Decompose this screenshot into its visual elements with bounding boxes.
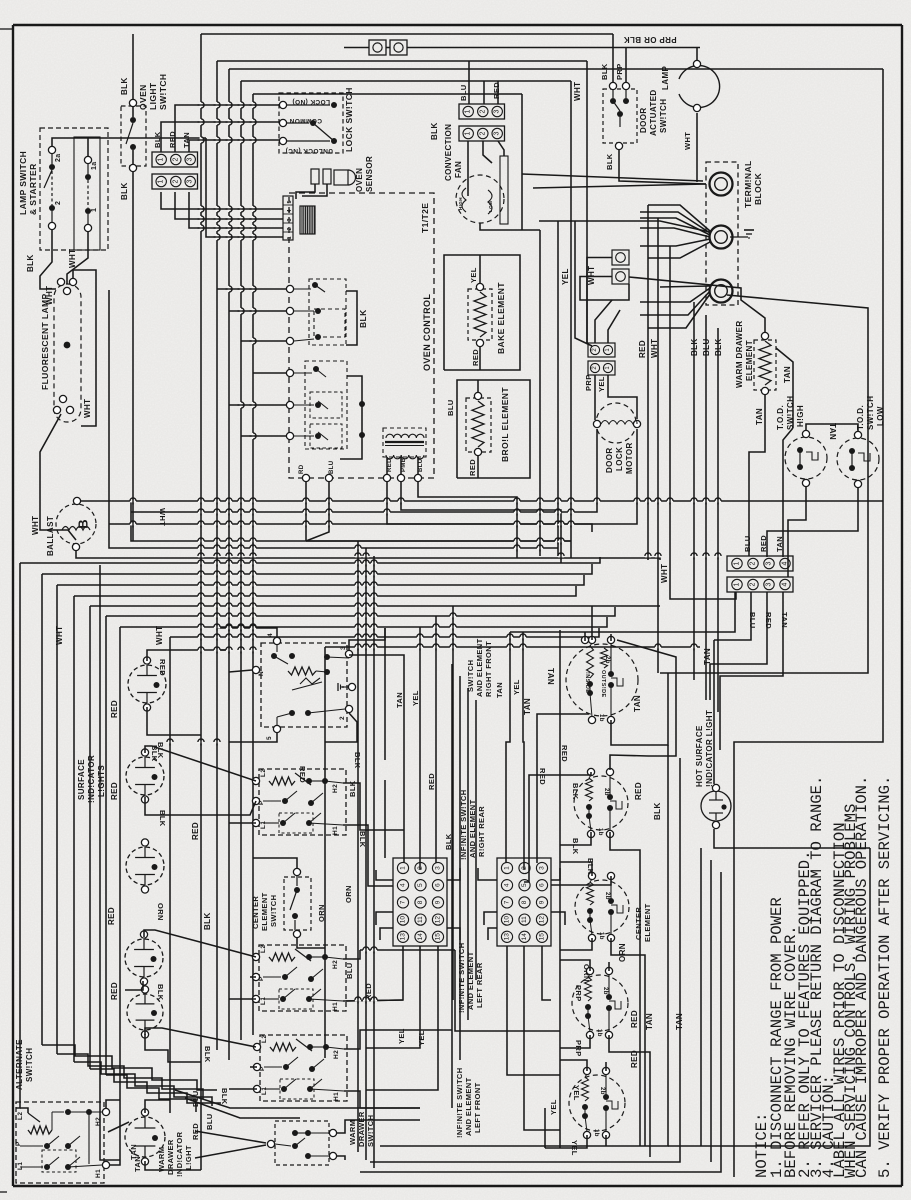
- svg-text:L1: L1: [260, 997, 267, 1005]
- svg-text:L!GHTS: L!GHTS: [97, 765, 106, 797]
- svg-text:BLK: BLK: [714, 338, 723, 356]
- svg-text:FLUORESCENT LAMP: FLUORESCENT LAMP: [40, 293, 50, 390]
- surface unit switch right front box: [261, 643, 347, 727]
- connector strip Q top: [727, 556, 793, 571]
- ground symbol: [730, 236, 748, 238]
- wire vertical 587: [586, 61, 588, 343]
- fluorescent lamp bottom pins: [59, 395, 66, 402]
- svg-text:RED: RED: [107, 907, 116, 925]
- svg-text:1: 1: [504, 866, 511, 870]
- hot surface indicator light: [701, 791, 731, 821]
- svg-text:3: 3: [340, 646, 347, 650]
- svg-text:BLK: BLK: [571, 838, 580, 855]
- wires BLK BLU BLK verticals: [693, 302, 695, 680]
- wires into left grid: [376, 870, 393, 880]
- svg-text:RED: RED: [560, 745, 569, 762]
- svg-text:WHT: WHT: [68, 249, 77, 268]
- svg-text:BLK: BLK: [120, 77, 129, 95]
- svg-text:RED: RED: [191, 822, 200, 840]
- bake element: [468, 289, 492, 340]
- warm drawer indicator light: [125, 1117, 165, 1157]
- svg-text:T1/T2E: T1/T2E: [420, 203, 430, 233]
- svg-text:WHT: WHT: [55, 626, 64, 645]
- svg-text:ELEMENT: ELEMENT: [260, 892, 269, 931]
- svg-text:5: 5: [417, 883, 424, 887]
- svg-text:1: 1: [734, 582, 741, 586]
- svg-text:YEL: YEL: [512, 679, 521, 695]
- wire long vertical 545: [544, 1108, 546, 1148]
- svg-text:BLU: BLU: [205, 1113, 214, 1130]
- oven light switch: [121, 106, 146, 166]
- svg-text:BLOCK: BLOCK: [753, 172, 763, 205]
- wires into terminal block mid: [648, 205, 710, 231]
- wire mid band 4: [56, 585, 58, 1054]
- svg-text:H1: H1: [95, 1169, 102, 1178]
- svg-text:!NF!N!TE SW!TCH: !NF!N!TE SW!TCH: [459, 789, 468, 860]
- svg-text:L2: L2: [260, 769, 267, 777]
- wire vertical 670: [670, 246, 736, 599]
- svg-text:DRAWER: DRAWER: [357, 1111, 366, 1147]
- connector square D: [612, 269, 629, 284]
- wire relay A right: [346, 291, 357, 345]
- svg-text:SURFACE: SURFACE: [77, 759, 86, 800]
- svg-text:LEFT REAR: LEFT REAR: [475, 962, 484, 1008]
- center element switch: [284, 877, 311, 930]
- wires door lock motor: [594, 375, 596, 420]
- wires oven control relay feeds: [217, 288, 286, 290]
- svg-text:12: 12: [539, 916, 546, 924]
- svg-text:1a: 1a: [91, 161, 98, 170]
- wire ballast to WHT bus: [81, 500, 883, 502]
- svg-text:RED: RED: [298, 766, 307, 783]
- svg-text:2: 2: [750, 582, 757, 586]
- svg-text:RED: RED: [634, 782, 643, 800]
- wires into right grid: [478, 868, 497, 880]
- wire mid band 3: [41, 574, 43, 1045]
- svg-text:TAN: TAN: [828, 423, 837, 440]
- svg-text:7: 7: [400, 900, 407, 904]
- relay A contacts: [286, 285, 293, 292]
- svg-text:LIGHT: LIGHT: [148, 82, 158, 110]
- switch RF internals: [271, 653, 277, 659]
- svg-text:AND ELEMENT: AND ELEMENT: [466, 951, 475, 1010]
- svg-text:OVEN CONTROL: OVEN CONTROL: [422, 294, 432, 371]
- wire field diagonals: [217, 649, 229, 651]
- svg-text:4: 4: [782, 582, 789, 586]
- wires switch LR: [144, 930, 256, 957]
- svg-text:4: 4: [267, 633, 274, 637]
- svg-text:PRP OR BLK: PRP OR BLK: [623, 35, 676, 44]
- lamp switch contacts: [48, 146, 55, 153]
- svg-text:R!GHT REAR: R!GHT REAR: [477, 806, 486, 857]
- surface indicator light 5: [127, 994, 163, 1030]
- svg-text:LOCK (NO): LOCK (NO): [292, 98, 330, 105]
- wire top bus 3: [229, 68, 883, 70]
- infinite switch left front: [569, 1075, 625, 1131]
- svg-text:L1: L1: [260, 821, 267, 829]
- svg-text:!NF!N!TE SW!TCH: !NF!N!TE SW!TCH: [455, 1067, 464, 1138]
- wire YEL to grid B c2: [523, 632, 524, 870]
- svg-text:AND ELEMENT: AND ELEMENT: [468, 799, 477, 858]
- svg-text:WHT: WHT: [683, 132, 692, 150]
- svg-text:L1: L1: [261, 1087, 268, 1095]
- oven sensor: [311, 169, 319, 184]
- svg-text:CENTER: CENTER: [634, 907, 643, 940]
- svg-text:WARM: WARM: [348, 1120, 357, 1145]
- svg-text:N: N: [258, 671, 265, 676]
- staircase wires: [42, 1045, 217, 1090]
- wires broil element: [477, 380, 479, 392]
- surface indicator light 4: [125, 939, 163, 977]
- svg-text:BLK: BLK: [600, 63, 609, 80]
- svg-text:RED: RED: [538, 768, 547, 785]
- svg-text:3: 3: [494, 109, 501, 113]
- wire field left of grids: [357, 541, 359, 1152]
- svg-text:2: 2: [750, 561, 757, 565]
- svg-text:5: 5: [521, 883, 528, 887]
- wires right rear switch: [524, 772, 591, 882]
- broil element: [466, 398, 491, 452]
- svg-text:TAN: TAN: [703, 648, 712, 665]
- svg-text:1: 1: [465, 109, 472, 113]
- svg-text:ELEMENT: ELEMENT: [745, 340, 754, 381]
- warm drawer switch contacts: [267, 1140, 274, 1147]
- wire lamp switch tops: [52, 138, 88, 156]
- svg-text:SENSOR: SENSOR: [365, 156, 374, 192]
- wire mid band 9: [169, 637, 171, 1113]
- wires oven lamp: [696, 48, 698, 61]
- wire top bus corner left: [200, 34, 202, 1063]
- svg-text:TAN: TAN: [129, 1144, 138, 1160]
- wires connector squares: [587, 258, 612, 344]
- svg-text:TAN: TAN: [395, 692, 404, 708]
- wire mid band 11: [100, 565, 120, 1160]
- wire WHT vertical 2: [657, 218, 659, 673]
- svg-text:BALLAST: BALLAST: [46, 516, 55, 556]
- svg-text:BLK: BLK: [653, 802, 662, 820]
- wires warm drawer light: [145, 1100, 170, 1113]
- svg-text:2: 2: [479, 131, 486, 135]
- wire RED to grid B c3: [537, 714, 589, 863]
- svg-text:L2: L2: [261, 1035, 268, 1043]
- svg-text:RED: RED: [158, 659, 167, 676]
- svg-text:RED: RED: [759, 535, 768, 552]
- border frame outer: [13, 24, 902, 26]
- svg-text:YEL: YEL: [572, 1085, 581, 1101]
- svg-text:WHT: WHT: [587, 266, 596, 285]
- svg-text:AND ELEMENT: AND ELEMENT: [464, 1077, 473, 1136]
- svg-text:!NS!DE: !NS!DE: [584, 672, 590, 693]
- svg-text:2: 2: [479, 109, 486, 113]
- surface unit switch right rear box: [259, 769, 346, 835]
- svg-text:RED: RED: [638, 340, 647, 358]
- wires connector pairs up: [595, 300, 612, 343]
- svg-text:H2: H2: [333, 1050, 340, 1059]
- svg-text:BLK: BLK: [571, 783, 580, 800]
- relay group A box: [309, 279, 346, 345]
- svg-text:13: 13: [504, 933, 511, 941]
- fluorescent lamp top pins: [57, 278, 64, 285]
- wires strip Q down: [510, 592, 735, 632]
- svg-text:P: P: [15, 1141, 22, 1146]
- wire oven light switch top: [132, 34, 134, 99]
- svg-text:BLK: BLK: [26, 254, 35, 272]
- wires oven sensor: [296, 184, 315, 199]
- lamp switch and starter box: [40, 128, 108, 250]
- surface indicator light 1: [128, 665, 166, 703]
- svg-text:1: 1: [158, 157, 165, 161]
- terminal grid right (1-15): [497, 858, 551, 946]
- broil element enclosure: [457, 380, 530, 478]
- wire TAN to grid B c1: [506, 632, 510, 863]
- svg-text:2a: 2a: [55, 153, 62, 162]
- svg-text:YEL: YEL: [597, 376, 606, 392]
- wire WHT vertical: [570, 81, 572, 558]
- wire oven light switch down: [132, 172, 134, 541]
- svg-text:AND ELEMENT: AND ELEMENT: [475, 638, 484, 697]
- svg-text:9: 9: [435, 900, 442, 904]
- svg-text:YEL: YEL: [417, 1030, 426, 1046]
- wire mid band 6: [89, 606, 91, 1069]
- svg-text:!ND!CATOR: !ND!CATOR: [87, 755, 96, 803]
- svg-text:5. VERIFY PROPER OPERATION AF: 5. VERIFY PROPER OPERATION AFTER SERVICI…: [876, 776, 894, 1178]
- surface indicator light 3: [126, 847, 164, 885]
- svg-text:3: 3: [766, 561, 773, 565]
- wire top bus 1: [201, 33, 613, 35]
- svg-text:YEL: YEL: [397, 1028, 406, 1044]
- svg-text:10: 10: [400, 916, 407, 924]
- terminal block lug 1: [710, 173, 733, 196]
- svg-text:3: 3: [435, 866, 442, 870]
- svg-text:RED: RED: [427, 773, 436, 790]
- wire mid band upper a: [131, 501, 571, 541]
- svg-text:2: 2: [417, 866, 424, 870]
- svg-text:WHT: WHT: [83, 399, 92, 418]
- wire top bus 2: [217, 60, 587, 62]
- svg-text:CENTER: CENTER: [251, 896, 260, 929]
- svg-text:RD: RD: [299, 464, 305, 474]
- wire top bus 5: [253, 93, 522, 95]
- svg-text:PMB: PMB: [401, 457, 407, 472]
- svg-text:OUTS!DE: OUTS!DE: [600, 670, 606, 698]
- svg-text:LAMP SWITCH: LAMP SWITCH: [18, 151, 28, 215]
- svg-text:BLK: BLK: [156, 984, 165, 1001]
- wire fluorescent lamp right side: [73, 270, 96, 426]
- svg-text:H2: H2: [332, 784, 339, 793]
- svg-text:WHT: WHT: [155, 626, 164, 645]
- TOD switch high: [785, 437, 827, 479]
- svg-text:TAN: TAN: [523, 698, 532, 715]
- svg-text:2: 2: [339, 716, 346, 720]
- svg-text:BLU: BLU: [418, 458, 424, 472]
- wires transformer to terminals: [386, 457, 388, 474]
- connector pair PRP: [588, 343, 615, 357]
- wire mid band 2: [16, 563, 20, 1108]
- svg-text:3: 3: [766, 582, 773, 586]
- svg-text:BLU: BLU: [743, 535, 752, 552]
- svg-text:1: 1: [91, 208, 98, 212]
- svg-text:TAN: TAN: [780, 612, 789, 628]
- svg-text:1: 1: [400, 866, 407, 870]
- svg-text:BLK: BLK: [358, 309, 368, 328]
- svg-text:2b: 2b: [602, 987, 608, 995]
- infinite switch right front: [566, 644, 638, 716]
- wires switch RF: [217, 628, 277, 637]
- wire RED vertical: [647, 205, 649, 560]
- svg-text:1: 1: [158, 179, 165, 183]
- svg-text:DOOR: DOOR: [605, 447, 614, 473]
- connector square C: [612, 250, 629, 265]
- svg-text:YEL: YEL: [469, 267, 478, 283]
- wires bake element: [479, 255, 481, 283]
- warm drawer switch box: [275, 1121, 329, 1165]
- svg-text:YEL: YEL: [561, 268, 570, 285]
- TOD switch low: [837, 438, 879, 480]
- svg-text:BLK: BLK: [430, 122, 439, 140]
- svg-text:T.O.D.: T.O.D.: [776, 405, 785, 430]
- wire right vertical B: [734, 69, 883, 1177]
- bake element enclosure: [444, 255, 520, 370]
- svg-text:DOOR: DOOR: [639, 107, 648, 133]
- surface indicator light 2: [126, 757, 164, 795]
- svg-text:RED: RED: [630, 1010, 639, 1028]
- wire warm drawer element top: [629, 277, 765, 332]
- wires into terminal block bottom: [640, 288, 710, 302]
- convection fan connector top: [459, 104, 505, 119]
- svg-text:2: 2: [172, 157, 179, 161]
- svg-text:SW!TCH: SW!TCH: [786, 396, 795, 430]
- svg-text:H1: H1: [332, 1002, 339, 1011]
- wire top bus 4: [241, 80, 571, 82]
- svg-text:H1: H1: [333, 1092, 340, 1101]
- svg-text:2b: 2b: [603, 788, 609, 796]
- svg-text:TAN: TAN: [775, 536, 784, 552]
- switch RF terminals: [273, 637, 280, 644]
- wire through squares: [344, 47, 369, 49]
- svg-text:TAN: TAN: [495, 682, 504, 698]
- svg-text:TERM!NAL: TERM!NAL: [743, 160, 753, 208]
- svg-text:ORN: ORN: [156, 903, 165, 921]
- svg-text:3: 3: [287, 218, 293, 221]
- svg-text:15: 15: [435, 933, 442, 941]
- svg-text:3: 3: [187, 179, 194, 183]
- svg-text:!ND!CATOR L!GHT: !ND!CATOR L!GHT: [705, 710, 714, 787]
- svg-text:4: 4: [400, 883, 407, 887]
- svg-text:BLK: BLK: [120, 182, 129, 200]
- wires oven control outputs to mid band: [418, 482, 517, 558]
- wires fan connector up: [468, 61, 470, 104]
- svg-text:LEFT FRONT: LEFT FRONT: [473, 1082, 482, 1133]
- svg-text:4: 4: [782, 561, 789, 565]
- svg-text:RED: RED: [387, 458, 393, 472]
- door actuated switch box: [603, 89, 637, 143]
- wire vertical 217: [216, 61, 218, 1050]
- connector square A: [369, 40, 386, 55]
- svg-text:ORN: ORN: [344, 885, 353, 903]
- svg-text:PRP: PRP: [574, 985, 583, 1002]
- svg-text:OVEN: OVEN: [355, 168, 364, 192]
- lock switch contacts: [279, 101, 286, 108]
- svg-text:YEL: YEL: [411, 690, 420, 706]
- wires below left grid: [346, 946, 403, 1001]
- terminal block lug 3: [710, 280, 733, 303]
- svg-text:14: 14: [521, 933, 528, 941]
- svg-text:2: 2: [172, 179, 179, 183]
- wire long vertical 560: [559, 630, 561, 1148]
- svg-text:4: 4: [287, 209, 293, 213]
- svg-text:2: 2: [287, 227, 293, 230]
- svg-text:1b: 1b: [593, 1129, 599, 1137]
- ground symbol switch RF: [340, 686, 348, 688]
- wire mid band 5: [73, 596, 75, 1062]
- svg-text:WARM: WARM: [157, 1147, 166, 1172]
- wire diagonal to warm drawer light: [108, 1122, 129, 1132]
- svg-text:PRP: PRP: [615, 63, 624, 80]
- svg-text:WARM DRAWER: WARM DRAWER: [735, 320, 744, 388]
- wire fluorescent lamp to ballast: [40, 414, 76, 540]
- svg-text:13: 13: [400, 933, 407, 941]
- svg-text:1b: 1b: [598, 932, 604, 940]
- svg-text:BLU: BLU: [446, 399, 455, 416]
- svg-text:2: 2: [55, 201, 62, 205]
- wire mid band upper b: [109, 290, 558, 548]
- wires door actuated switch: [612, 34, 614, 82]
- svg-text:4: 4: [504, 883, 511, 887]
- svg-text:R!GHT FRONT: R!GHT FRONT: [484, 641, 493, 697]
- wire relay B right: [340, 376, 362, 459]
- alternate switch box: [16, 1102, 104, 1183]
- svg-text:ELEMENT: ELEMENT: [643, 903, 652, 942]
- wires light1: [147, 650, 170, 661]
- svg-text:ORN: ORN: [618, 943, 627, 962]
- svg-text:CAN CAUSE IMPROPER AND DANGERO: CAN CAUSE IMPROPER AND DANGEROUS OPERATI…: [853, 776, 871, 1178]
- svg-text:L1: L1: [17, 1162, 24, 1170]
- svg-text:6: 6: [539, 883, 546, 887]
- connector square B: [390, 40, 407, 55]
- svg-text:5: 5: [266, 736, 273, 740]
- wires nested bottom right: [380, 745, 668, 1146]
- svg-text:RED: RED: [468, 459, 477, 476]
- connector pair YEL: [588, 361, 615, 375]
- svg-text:CONVECTION: CONVECTION: [444, 124, 453, 181]
- wires convection fan: [467, 141, 469, 196]
- surface unit switch left front box: [260, 1035, 347, 1101]
- svg-text:RED: RED: [764, 612, 773, 629]
- svg-text:SW!TCH: SW!TCH: [466, 660, 475, 692]
- svg-text:6: 6: [435, 883, 442, 887]
- svg-text:RED: RED: [492, 82, 501, 99]
- door actuated switch contacts: [609, 82, 616, 89]
- wires left rear switch: [560, 960, 590, 971]
- wires TOD: [806, 424, 858, 431]
- infinite switch left rear: [572, 975, 628, 1031]
- oven control connector 54321: [283, 196, 293, 240]
- wire mid band 10: [324, 647, 326, 1058]
- svg-text:BLK: BLK: [158, 810, 167, 827]
- svg-text:LOW: LOW: [488, 200, 493, 212]
- wire mid band 7: [105, 616, 107, 1075]
- svg-text:HIGH: HIGH: [458, 197, 463, 210]
- svg-text:UNLOCK (NC): UNLOCK (NC): [285, 147, 333, 154]
- svg-text:BLK: BLK: [203, 912, 212, 930]
- svg-text:3: 3: [539, 866, 546, 870]
- svg-text:WHT: WHT: [31, 516, 40, 535]
- wires below right grid: [507, 946, 560, 1075]
- svg-text:1: 1: [465, 131, 472, 135]
- svg-text:11: 11: [417, 916, 424, 923]
- svg-text:& STARTER: & STARTER: [28, 163, 38, 215]
- wire mid band 1: [130, 558, 660, 560]
